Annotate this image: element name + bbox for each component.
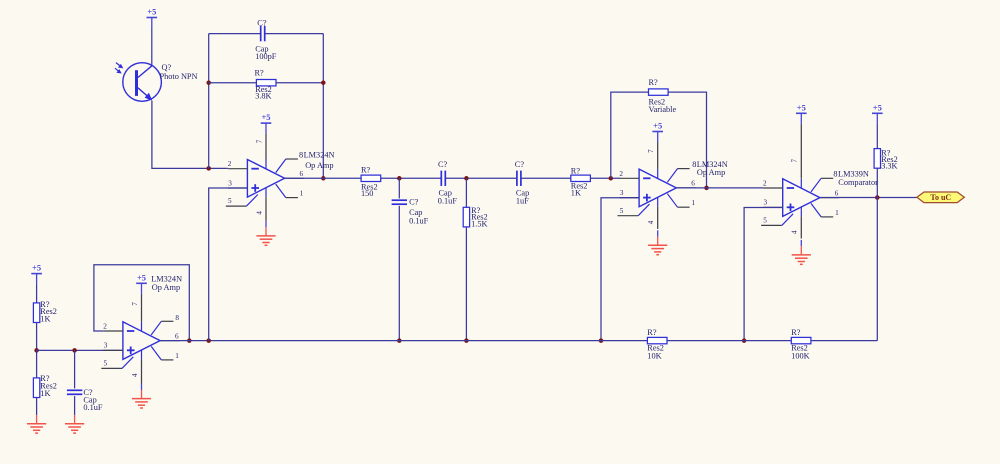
svg-text:+5: +5: [137, 272, 146, 282]
wire C3 to C4: [446, 177, 516, 179]
label R5: [571, 167, 588, 198]
ground U1: [256, 221, 275, 245]
wire R8 to node: [36, 323, 38, 351]
svg-text:4: 4: [131, 373, 139, 377]
svg-text:3: 3: [764, 199, 768, 207]
label Q7: [160, 63, 198, 81]
node junction C5 tap: [72, 348, 77, 353]
label R3: [361, 165, 378, 198]
wire R9 to ground: [36, 398, 38, 416]
svg-text:10K: 10K: [647, 351, 661, 360]
wire U3 pin4: [800, 216, 802, 238]
svg-text:8: 8: [833, 170, 837, 179]
svg-text:4: 4: [255, 211, 263, 215]
svg-text:+5: +5: [32, 263, 41, 273]
svg-text:7: 7: [131, 302, 139, 306]
svg-text:5: 5: [620, 207, 624, 215]
label C1: [255, 18, 277, 61]
wire U4 feedback: [94, 265, 189, 341]
svg-text:C?: C?: [409, 198, 419, 207]
label R9: [40, 374, 57, 398]
pin numbers U2: [619, 149, 695, 224]
svg-text:6: 6: [835, 189, 839, 197]
wire U3 output: [820, 197, 917, 199]
svg-text:5: 5: [763, 217, 767, 225]
svg-text:5: 5: [104, 360, 108, 368]
power +5 (divider): [31, 263, 42, 284]
svg-text:Comparator: Comparator: [838, 178, 878, 187]
svg-text:+5: +5: [147, 7, 156, 17]
op-amp U2 LM324N: [618, 169, 696, 216]
wire bottom bus left: [160, 340, 647, 342]
label R11: [791, 328, 809, 360]
svg-text:Op Amp: Op Amp: [697, 168, 725, 177]
capacitor C4 1uF series: [517, 171, 521, 186]
svg-text:3: 3: [104, 342, 108, 350]
wire C5 upper: [74, 350, 76, 388]
svg-text:3: 3: [228, 179, 232, 187]
wire feedback right riser: [322, 34, 324, 179]
svg-text:R?: R?: [571, 167, 581, 176]
wire R4 lower to bus: [465, 227, 467, 341]
wire U2 pin4: [657, 207, 659, 229]
label C2: [409, 198, 429, 226]
wire R5 to U2 pin2: [590, 177, 620, 179]
wire R7 to output node: [876, 168, 878, 197]
wire U1 pin4: [265, 197, 267, 221]
wire U2 pin7 supply: [657, 142, 659, 169]
node junction riser/R2 right: [321, 80, 326, 85]
node junction C2/bus: [397, 338, 402, 343]
svg-text:6: 6: [300, 170, 304, 178]
svg-text:1: 1: [300, 190, 304, 198]
resistor R4 1.5K: [463, 207, 469, 227]
wire output node down to bus: [876, 198, 878, 341]
label C4: [515, 160, 529, 205]
node junction U4 feedback/output: [187, 338, 192, 343]
svg-text:R?: R?: [255, 68, 265, 77]
wire U1 pin3 riser: [209, 188, 248, 341]
svg-text:0.1uF: 0.1uF: [83, 403, 103, 412]
label U1 LM324N: [299, 151, 334, 171]
svg-text:1K: 1K: [571, 189, 581, 198]
power +5 (R7 pull-up): [872, 102, 883, 123]
node junction emitter/feedback: [206, 166, 211, 171]
svg-text:Photo NPN: Photo NPN: [160, 72, 198, 81]
svg-text:Op Amp: Op Amp: [152, 283, 180, 292]
label U2 LM324N: [692, 160, 727, 177]
node junction divider: [34, 348, 39, 353]
resistor R10 10K: [647, 337, 667, 343]
svg-text:5: 5: [228, 197, 232, 205]
wire C5 lower: [74, 396, 76, 415]
wire U1 pin7 supply: [265, 134, 267, 160]
pin numbers U3: [763, 159, 839, 234]
svg-text:8: 8: [299, 151, 303, 160]
label R8: [40, 300, 57, 324]
wire U3 pin7 supply: [800, 124, 802, 179]
pin numbers U1: [228, 139, 304, 214]
label R7: [881, 148, 898, 170]
svg-text:2: 2: [619, 170, 623, 178]
node junction R4/bus: [464, 338, 469, 343]
op-amp U1 LM324N: [226, 159, 304, 206]
svg-text:LM324N: LM324N: [304, 151, 335, 160]
label U4 LM324N: [151, 275, 182, 292]
svg-text:150: 150: [361, 189, 373, 198]
wire bus right: [811, 340, 877, 342]
wire R2 right: [276, 82, 323, 84]
label U4 pin8: [175, 314, 179, 322]
wire to R2 left: [209, 82, 257, 84]
node junction U1 pin3 riser/bus: [206, 338, 211, 343]
svg-text:4: 4: [791, 230, 799, 234]
wire +5 to R8: [36, 284, 38, 303]
svg-text:1uF: 1uF: [516, 197, 529, 206]
node junction feedback/output: [321, 176, 326, 181]
power +5 (V1, photo transistor): [147, 7, 158, 28]
power +5 (U2 pin7): [652, 121, 663, 142]
power +5 (U3 pin7): [796, 102, 807, 123]
transistor Q7 photo NPN: [115, 63, 161, 102]
label U3 LM339N: [833, 170, 878, 187]
wire +5 to Q7 collector: [151, 28, 153, 66]
svg-text:100K: 100K: [791, 351, 809, 360]
svg-text:7: 7: [255, 139, 263, 143]
svg-text:0.1uF: 0.1uF: [409, 216, 429, 225]
svg-text:1K: 1K: [40, 389, 50, 398]
wire C1 right: [265, 33, 323, 35]
ground divider: [27, 415, 46, 433]
svg-text:100pF: 100pF: [255, 52, 277, 61]
svg-text:2: 2: [763, 180, 767, 188]
svg-text:3.8K: 3.8K: [255, 92, 271, 101]
svg-text:Q?: Q?: [162, 63, 172, 72]
node junction U2 output: [704, 186, 709, 191]
wire U2 output to U3 pin2: [676, 187, 763, 189]
svg-text:C?: C?: [515, 160, 525, 169]
wire C4 to R5: [522, 177, 571, 179]
resistor R11 100K: [791, 337, 811, 343]
wire to C1 left: [209, 33, 261, 35]
svg-text:R?: R?: [649, 78, 659, 87]
wire U2 feedback loop: [611, 92, 649, 178]
label C5: [83, 388, 103, 412]
svg-text:Variable: Variable: [649, 105, 677, 114]
wire U4 pin4: [141, 359, 143, 384]
node junction U3 output/pullup: [875, 195, 880, 200]
capacitor C5 0.1uF: [67, 390, 82, 394]
wire C2 lower to bus: [398, 206, 400, 341]
svg-text:8: 8: [175, 314, 179, 322]
resistor R5 1K: [571, 175, 591, 181]
svg-text:+5: +5: [653, 121, 662, 131]
node junction U2 pin3/bus: [599, 338, 604, 343]
label C3: [438, 160, 458, 205]
svg-text:1: 1: [692, 199, 696, 207]
ground C5: [65, 415, 84, 433]
svg-text:C?: C?: [438, 160, 448, 169]
svg-text:To uC: To uC: [930, 193, 951, 202]
wire U3 pin3 riser: [744, 208, 783, 341]
label R6: [649, 78, 677, 114]
power +5 (U4 pin7): [136, 272, 147, 293]
ground U2: [648, 230, 667, 254]
op-amp U3 LM339N comparator: [761, 178, 839, 225]
svg-text:1K: 1K: [40, 314, 50, 323]
svg-text:2: 2: [103, 323, 107, 331]
node junction U3 pin3/bus: [742, 338, 747, 343]
svg-text:C?: C?: [257, 18, 267, 27]
svg-text:7: 7: [791, 159, 799, 163]
label R4: [471, 206, 488, 229]
resistor R9 1K: [33, 378, 39, 398]
resistor R8 1K: [33, 303, 39, 323]
svg-text:3: 3: [620, 189, 624, 197]
svg-text:1.5K: 1.5K: [471, 220, 487, 229]
label R10: [647, 328, 664, 360]
op-amp U4 LM324N: [101, 321, 179, 368]
svg-text:1: 1: [835, 209, 839, 217]
wire R3 to C3: [381, 177, 441, 179]
node junction feedback tap U2: [609, 176, 614, 181]
svg-text:7: 7: [647, 149, 655, 153]
svg-text:0.1uF: 0.1uF: [438, 197, 458, 206]
wire C2 upper: [398, 178, 400, 198]
node junction riser/R2 branch: [206, 80, 211, 85]
svg-text:2: 2: [228, 160, 232, 168]
wire divider node to U4 pin3: [37, 349, 123, 351]
svg-text:R?: R?: [791, 328, 801, 337]
wire Q7 emitter to U1 pin2: [152, 101, 228, 169]
svg-text:3.3K: 3.3K: [881, 162, 897, 171]
wire divider node down: [36, 350, 38, 378]
capacitor C1 100pF: [261, 26, 265, 41]
svg-text:6: 6: [691, 180, 695, 188]
wire R6 to U2 output: [668, 92, 706, 188]
svg-text:Op Amp: Op Amp: [305, 161, 333, 170]
svg-text:8: 8: [692, 160, 696, 169]
resistor R3 150: [361, 175, 381, 181]
wire U4 pin7 supply: [141, 294, 143, 322]
resistor R2 3.8K: [256, 80, 276, 86]
svg-text:1: 1: [175, 352, 179, 360]
svg-text:6: 6: [175, 332, 179, 340]
svg-text:R?: R?: [647, 328, 657, 337]
svg-text:+5: +5: [873, 102, 882, 112]
node junction C2 tap: [397, 176, 402, 181]
svg-text:+5: +5: [261, 112, 270, 122]
resistor R6 variable: [649, 89, 669, 95]
capacitor C2 0.1uF shunt: [392, 200, 407, 204]
port To uC: [917, 192, 964, 203]
wire U1 output: [285, 177, 362, 179]
wire feedback left riser: [208, 34, 210, 169]
capacitor C3 0.1uF series: [441, 171, 445, 186]
wire bus mid: [667, 340, 791, 342]
svg-text:+5: +5: [797, 102, 806, 112]
svg-text:4: 4: [647, 220, 655, 224]
wire +5 to R7: [876, 124, 878, 149]
wire U2 pin3 riser: [601, 198, 639, 341]
wire R4 upper: [465, 178, 467, 207]
node junction R4 tap: [464, 176, 469, 181]
ground U4: [132, 384, 151, 408]
power +5 (U1 pin7): [261, 112, 272, 133]
svg-text:R?: R?: [361, 165, 371, 174]
label R2: [255, 68, 272, 100]
pin numbers U4: [103, 302, 179, 377]
resistor R7 3.3K: [874, 149, 880, 169]
ground U3: [792, 240, 811, 264]
